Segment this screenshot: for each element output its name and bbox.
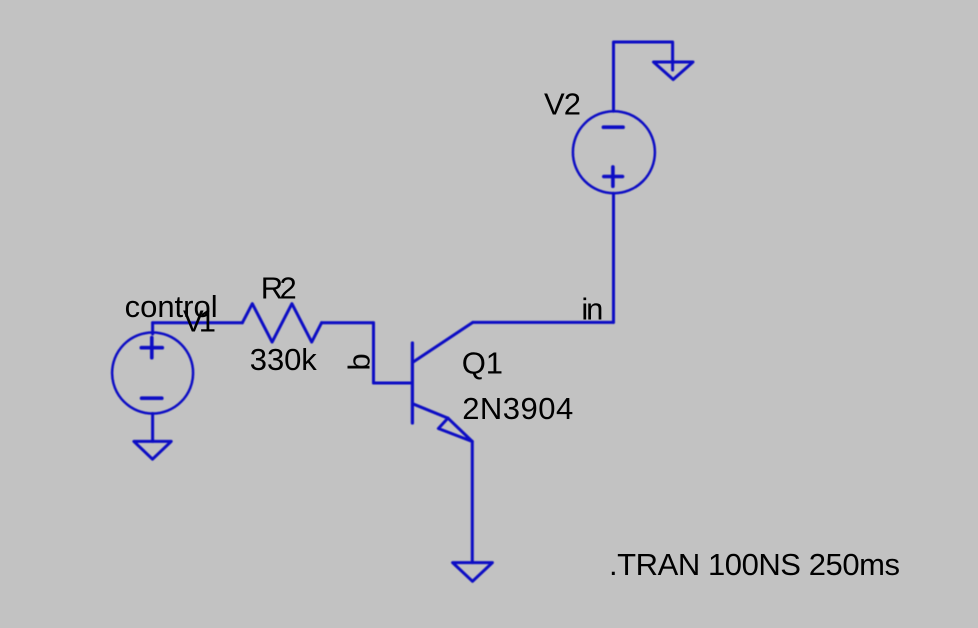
V2 plus sign — [604, 167, 623, 186]
V2 minus sign — [603, 125, 623, 129]
transistor Q1 emitter diagonal — [413, 404, 448, 418]
V1 plus sign — [141, 338, 162, 358]
resistor R2 zigzag — [242, 304, 321, 342]
ground V2 — [654, 62, 694, 80]
svg-text:.TRAN 100NS 250ms: .TRAN 100NS 250ms — [609, 547, 900, 582]
wire resistor to base corner — [322, 321, 374, 324]
svg-text:b: b — [342, 353, 377, 370]
wire control net horizontal — [153, 321, 243, 324]
transistor Q1 emitter arrowhead — [438, 418, 472, 441]
ground V1 — [134, 441, 171, 459]
svg-text:330k: 330k — [250, 342, 317, 377]
transistor Q1 base bar — [411, 343, 414, 423]
svg-text:R2: R2 — [261, 271, 297, 306]
svg-text:in: in — [581, 292, 603, 327]
ground emitter — [453, 563, 493, 582]
wire vertical down to base — [372, 323, 375, 383]
wire V1 top stub — [151, 323, 154, 334]
wire V2 bottom to in net — [612, 193, 615, 322]
wire V2 top to ground — [614, 42, 673, 111]
voltage source V1 circle — [112, 333, 193, 414]
transistor Q1 collector diagonal — [413, 322, 473, 362]
voltage source V2 circle — [573, 111, 655, 193]
V1 minus sign — [142, 396, 162, 400]
wire V1 bottom stub — [151, 414, 154, 442]
wire in net horizontal — [473, 321, 614, 324]
svg-text:2N3904: 2N3904 — [462, 391, 573, 426]
wire emitter to ground — [471, 442, 474, 563]
svg-text:Q1: Q1 — [462, 346, 503, 381]
wire base horizontal — [374, 382, 412, 385]
svg-text:V1: V1 — [183, 304, 216, 339]
svg-text:V2: V2 — [544, 86, 581, 121]
